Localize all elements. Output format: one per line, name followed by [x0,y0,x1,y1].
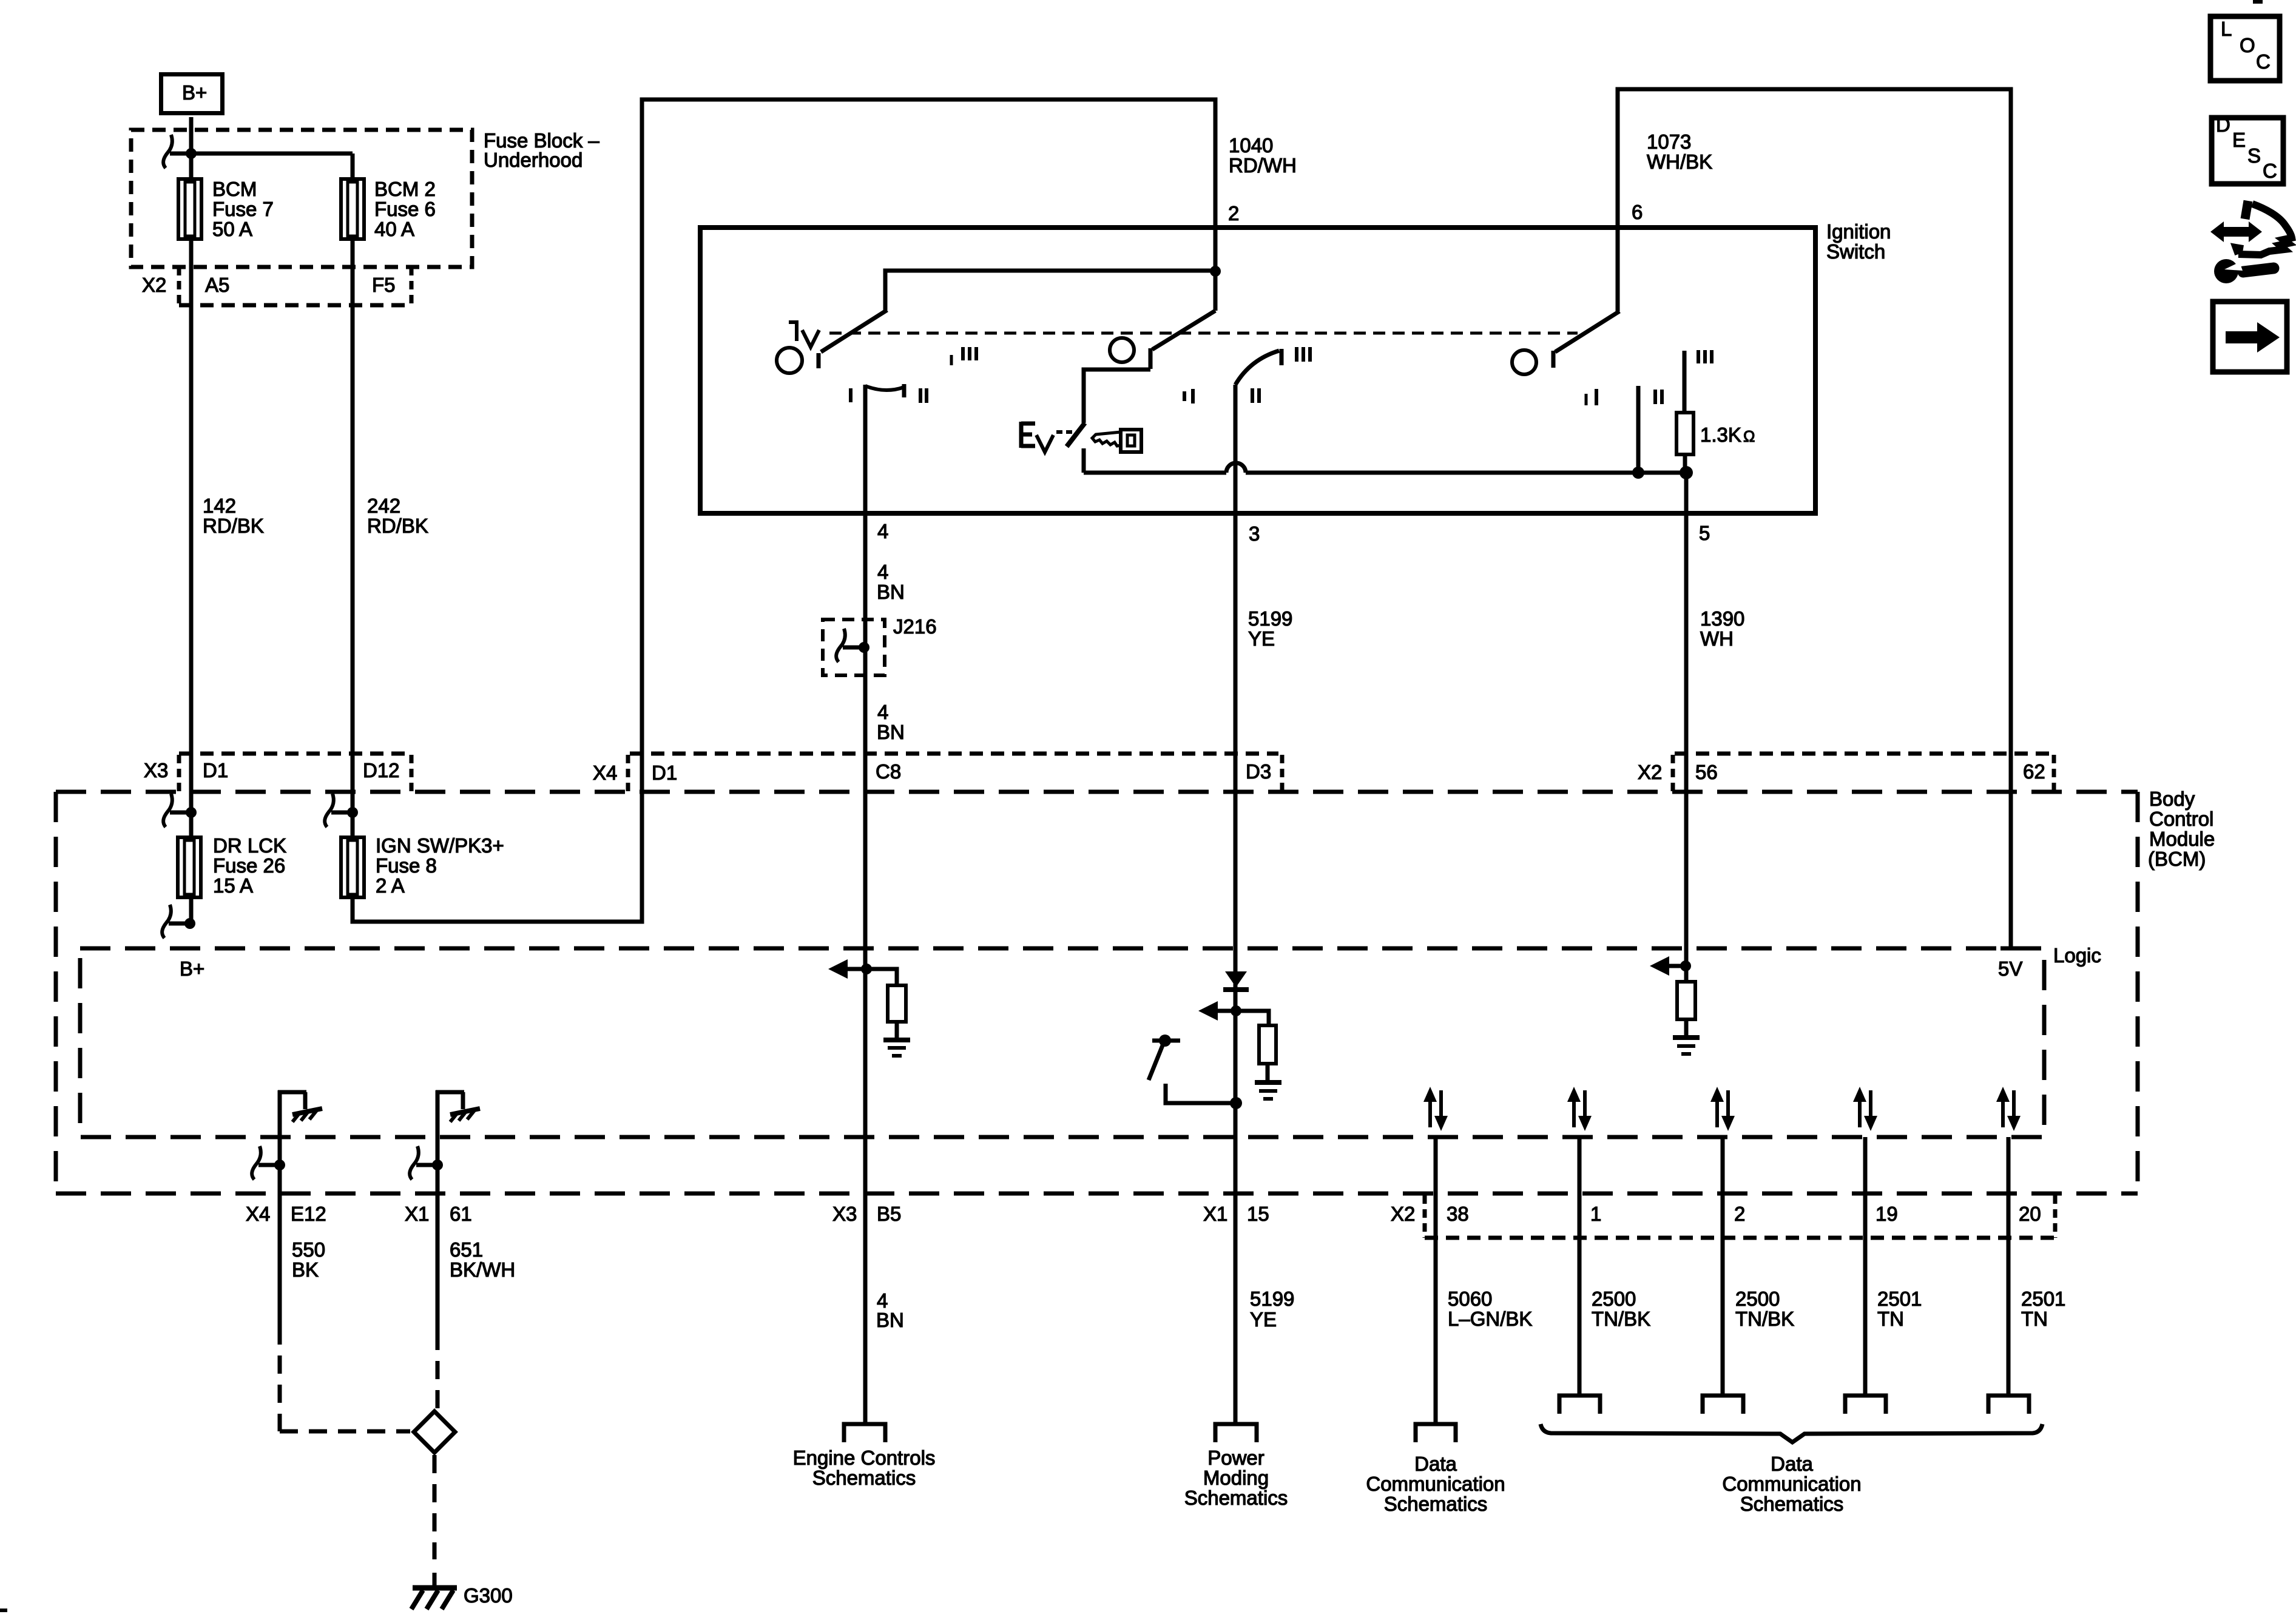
svg-text:1.3K: 1.3K [1700,424,1741,446]
svg-text:S: S [2247,144,2261,167]
svg-text:X4: X4 [246,1203,270,1225]
svg-text:5V: 5V [1998,957,2022,980]
svg-text:A5: A5 [205,274,229,296]
svg-text:4: 4 [877,520,888,542]
svg-text:2500: 2500 [1735,1288,1780,1310]
svg-text:TN: TN [1877,1308,1904,1330]
svg-text:C8: C8 [876,760,901,783]
svg-text:X3: X3 [144,759,168,781]
svg-text:BN: BN [876,1309,904,1331]
svg-text:G300: G300 [464,1584,513,1607]
svg-text:(BCM): (BCM) [2148,848,2206,870]
svg-text:Moding: Moding [1203,1467,1269,1489]
svg-text:2 A: 2 A [376,874,405,897]
svg-text:E: E [2232,129,2246,151]
svg-text:4: 4 [877,701,888,723]
svg-text:1073: 1073 [1647,130,1691,153]
svg-text:X2: X2 [142,274,166,296]
svg-text:TN/BK: TN/BK [1592,1308,1650,1330]
svg-text:56: 56 [1695,761,1718,783]
svg-text:L–GN/BK: L–GN/BK [1448,1308,1532,1330]
svg-text:Ω: Ω [1743,427,1755,445]
svg-text:BCM 2: BCM 2 [374,178,436,200]
svg-text:BN: BN [877,721,905,743]
svg-text:WH/BK: WH/BK [1647,150,1712,173]
svg-text:B+: B+ [180,957,204,980]
svg-text:19: 19 [1876,1203,1898,1225]
svg-text:WH: WH [1700,627,1734,650]
svg-text:5199: 5199 [1250,1288,1294,1310]
svg-text:61: 61 [450,1203,472,1225]
svg-text:62: 62 [2023,760,2045,783]
svg-text:D12: D12 [363,759,400,781]
svg-text:5199: 5199 [1248,607,1292,630]
svg-text:BK/WH: BK/WH [450,1258,515,1281]
svg-text:Control: Control [2149,808,2213,830]
svg-text:2: 2 [1228,202,1239,224]
svg-text:TN: TN [2021,1308,2048,1330]
svg-text:4: 4 [877,561,888,583]
svg-text:Schematics: Schematics [1384,1493,1488,1515]
svg-text:2500: 2500 [1592,1288,1636,1310]
svg-text:D: D [2216,113,2230,136]
svg-text:20: 20 [2019,1203,2041,1225]
svg-text:242: 242 [367,495,400,517]
svg-text:651: 651 [450,1238,483,1261]
svg-text:Schematics: Schematics [1740,1493,1844,1515]
svg-text:YE: YE [1248,627,1275,650]
svg-text:Switch: Switch [1826,240,1885,263]
svg-text:Module: Module [2149,828,2215,850]
svg-text:Schematics: Schematics [812,1467,916,1489]
svg-text:BCM: BCM [212,178,257,200]
svg-text:IGN SW/PK3+: IGN SW/PK3+ [376,834,504,857]
svg-text:D1: D1 [203,759,228,781]
svg-text:RD/BK: RD/BK [203,515,264,537]
svg-text:1: 1 [1590,1203,1601,1225]
svg-text:X4: X4 [593,761,617,784]
svg-text:Power: Power [1207,1447,1264,1469]
svg-text:6: 6 [1632,201,1643,223]
svg-text:Communication: Communication [1366,1473,1505,1495]
svg-text:Underhood: Underhood [484,149,582,171]
svg-text:Fuse 6: Fuse 6 [374,198,436,220]
svg-text:TN/BK: TN/BK [1735,1308,1794,1330]
svg-text:L: L [2221,18,2232,40]
svg-text:D3: D3 [1246,760,1271,783]
svg-text:J216: J216 [893,615,937,638]
svg-text:Logic: Logic [2053,944,2101,967]
svg-text:BK: BK [292,1258,319,1281]
svg-text:550: 550 [292,1238,325,1261]
svg-text:X1: X1 [405,1203,429,1225]
svg-text:3: 3 [1249,522,1260,545]
svg-text:1390: 1390 [1700,607,1744,630]
svg-text:Fuse 7: Fuse 7 [212,198,274,220]
svg-text:2501: 2501 [2021,1288,2065,1310]
svg-text:X1: X1 [1203,1203,1227,1225]
svg-text:Engine Controls: Engine Controls [793,1447,936,1469]
svg-text:15: 15 [1247,1203,1269,1225]
svg-text:5: 5 [1699,522,1710,544]
svg-text:C: C [2263,160,2277,182]
svg-text:Communication: Communication [1722,1473,1861,1495]
svg-text:1040: 1040 [1229,134,1273,157]
svg-text:DR LCK: DR LCK [213,834,286,857]
svg-text:15 A: 15 A [213,874,253,897]
svg-text:5060: 5060 [1448,1288,1492,1310]
svg-text:E12: E12 [291,1203,326,1225]
svg-text:X3: X3 [832,1203,857,1225]
svg-text:2: 2 [1734,1203,1745,1225]
svg-text:YE: YE [1250,1308,1277,1331]
svg-text:Data: Data [1414,1453,1457,1475]
svg-text:RD/BK: RD/BK [367,515,428,537]
svg-text:2501: 2501 [1877,1288,1922,1310]
svg-text:142: 142 [203,495,236,517]
svg-text:50 A: 50 A [212,218,252,240]
svg-text:40 A: 40 A [374,218,414,240]
svg-text:C: C [2256,50,2271,73]
svg-text:Ignition: Ignition [1826,220,1891,243]
svg-text:Body: Body [2149,788,2195,810]
svg-text:O: O [2240,34,2255,56]
svg-text:BN: BN [877,581,905,603]
svg-text:X2: X2 [1391,1203,1415,1225]
svg-text:RD/WH: RD/WH [1229,154,1297,177]
svg-text:Data: Data [1771,1453,1813,1475]
svg-text:B5: B5 [877,1203,901,1225]
svg-text:B+: B+ [182,81,207,104]
svg-text:X2: X2 [1638,761,1662,783]
svg-text:38: 38 [1447,1203,1469,1225]
svg-text:Fuse 8: Fuse 8 [376,854,437,877]
svg-text:D1: D1 [652,761,677,784]
svg-text:Schematics: Schematics [1184,1487,1288,1509]
svg-text:F5: F5 [372,274,396,296]
svg-text:Fuse 26: Fuse 26 [213,854,285,877]
